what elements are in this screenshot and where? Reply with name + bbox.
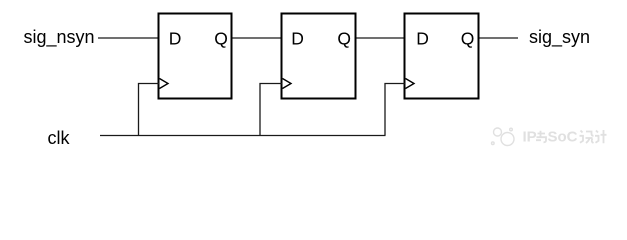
wire clk riser to U2 — [260, 84, 282, 136]
svg-text:clk: clk — [48, 128, 71, 148]
svg-text:IP: IP — [523, 129, 537, 146]
svg-text:sig_nsyn: sig_nsyn — [24, 27, 95, 48]
wire U1 Q to U2 D — [233, 37, 282, 39]
svg-text:sig_syn: sig_syn — [529, 27, 590, 48]
wire U3 Q to sig_syn — [480, 37, 519, 39]
U3 clock edge triangle — [406, 79, 415, 89]
watermark glyph 设 — [580, 131, 594, 144]
flip-flop U3 body — [405, 14, 479, 99]
flip-flop U2 body — [282, 14, 356, 99]
svg-text:D: D — [416, 29, 429, 49]
svg-text:Q: Q — [214, 29, 228, 49]
wire clk riser to U3 — [385, 84, 405, 136]
watermark glyph 与 — [536, 131, 546, 143]
wire U2 Q to U3 D — [357, 37, 405, 39]
flip-flop U1 body — [159, 14, 232, 99]
svg-text:D: D — [291, 29, 304, 49]
wire clk riser to U1 — [139, 84, 160, 136]
watermark glyph 计 — [595, 130, 607, 143]
wire sig_nsyn to U1 pin D — [98, 37, 158, 39]
svg-text:Q: Q — [337, 29, 351, 49]
U1 clock edge triangle — [160, 79, 169, 89]
watermark logo circles — [492, 128, 515, 146]
svg-text:SoC: SoC — [548, 129, 578, 146]
wire clk rail — [100, 135, 386, 137]
U2 clock edge triangle — [283, 79, 292, 89]
svg-text:Q: Q — [461, 29, 475, 49]
svg-text:D: D — [169, 29, 182, 49]
